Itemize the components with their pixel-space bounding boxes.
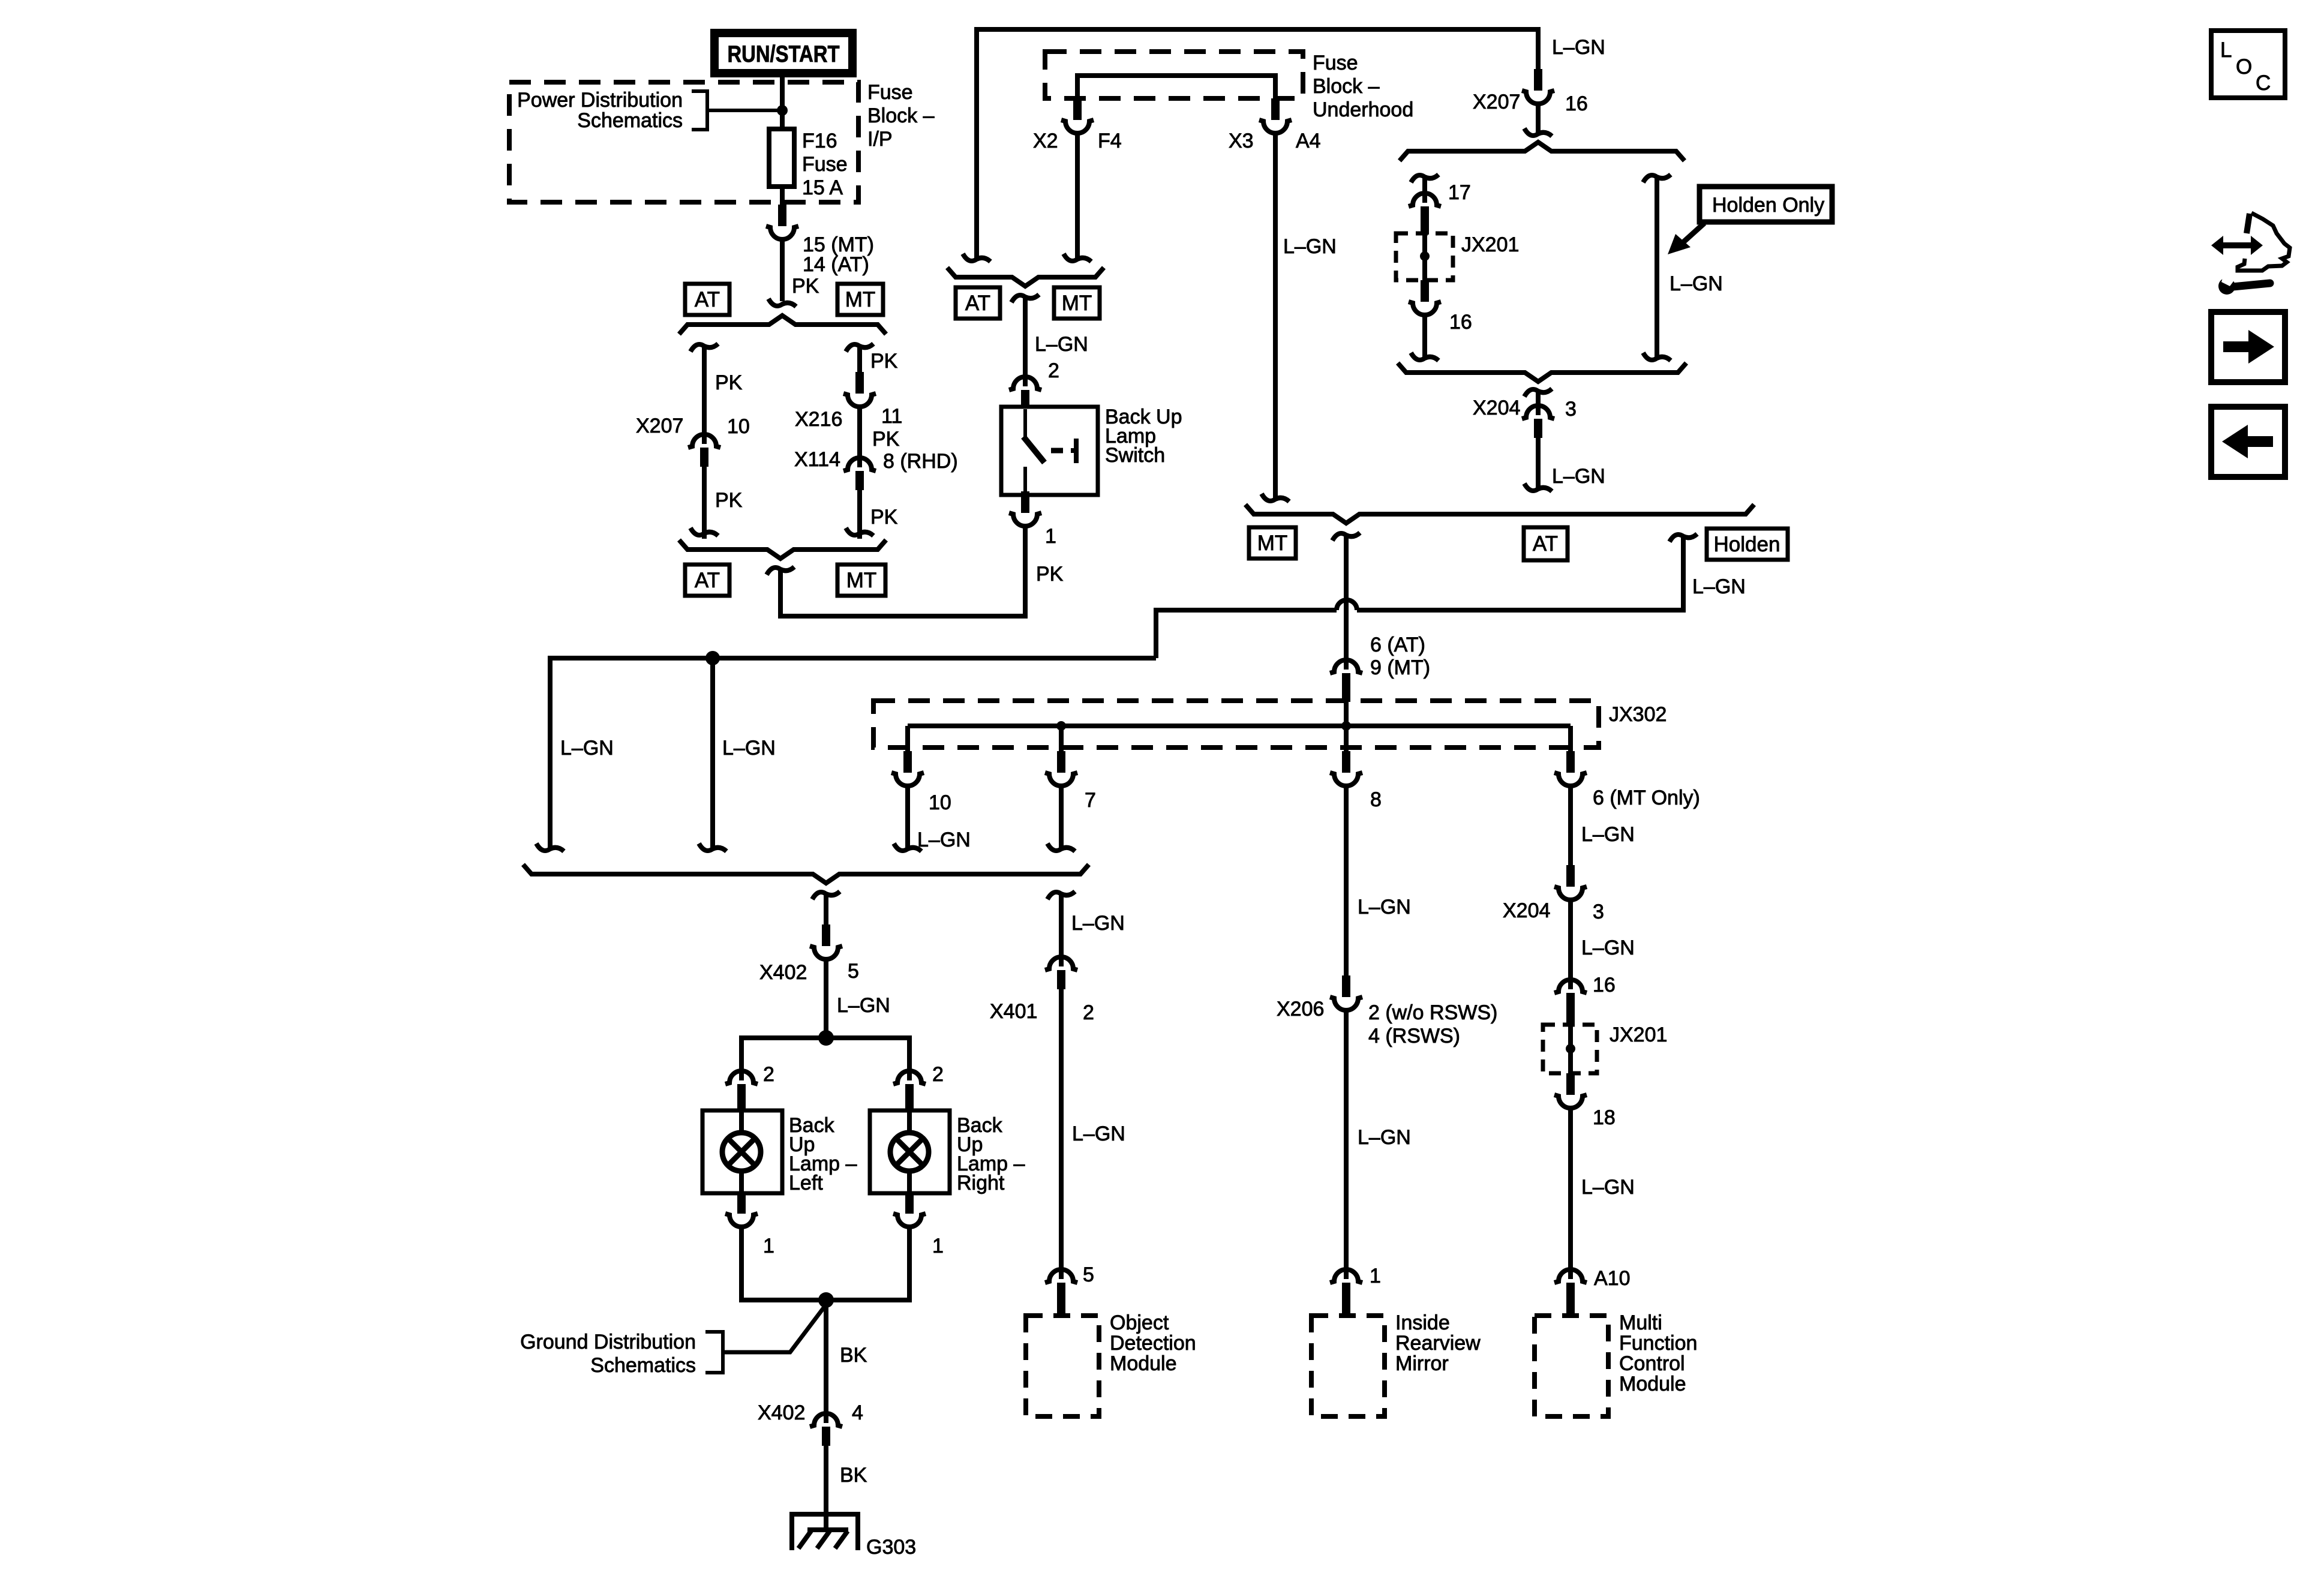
svg-text:X206: X206 [1277, 998, 1324, 1020]
bracket for Ground Distribution text [705, 1332, 723, 1373]
wire: right lamp to ground node [826, 1226, 909, 1300]
svg-text:PK: PK [870, 506, 898, 529]
wire L-GN: far left leg [548, 656, 553, 848]
wire: right lamp lead-in [907, 1112, 912, 1135]
switch internal: blade (open) [1023, 437, 1044, 463]
wire: JX302 pin7 drop [1059, 726, 1064, 752]
svg-text:Block –: Block – [867, 104, 935, 127]
svg-text:BK: BK [840, 1344, 867, 1367]
svg-text:11: 11 [881, 405, 902, 428]
connector: MFCM pin A10 [1554, 1269, 1587, 1317]
svg-text:JX302: JX302 [1609, 703, 1667, 726]
svg-text:L: L [2220, 38, 2232, 62]
connector: right lamp pin 2 [893, 1071, 926, 1112]
hook: PK wire end at split brace [768, 299, 796, 307]
svg-text:X401: X401 [990, 1000, 1037, 1023]
connector: left lamp pin 1 [725, 1192, 758, 1227]
svg-text:O: O [2236, 55, 2252, 79]
wire L-GN: to MFCM [1568, 1107, 1573, 1279]
svg-text:8 (RHD): 8 (RHD) [883, 450, 958, 473]
wire: ground distribution tap [723, 1303, 827, 1352]
wire: A4 drop inside box [1273, 73, 1278, 100]
svg-text:AT: AT [965, 292, 990, 315]
hook: lamp feed output [812, 891, 840, 899]
brace: AT/MT split [679, 316, 886, 334]
svg-text:L–GN: L–GN [1552, 36, 1605, 59]
wire L-GN: to switch pin 2 [1023, 295, 1028, 386]
svg-text:9 (MT): 9 (MT) [1370, 656, 1430, 679]
svg-text:PK: PK [792, 275, 819, 298]
svg-text:JX201: JX201 [1461, 233, 1519, 256]
connector JX201 pin 17 [1409, 193, 1441, 235]
svg-text:3: 3 [1593, 900, 1604, 923]
brace: Holden split [1400, 142, 1685, 161]
svg-text:Control: Control [1619, 1352, 1685, 1375]
svg-text:5: 5 [1083, 1263, 1094, 1286]
wire: left lamp lead-out [739, 1169, 744, 1193]
MT tag box (left merge) [837, 565, 885, 596]
lamp symbol left (circle with X) [722, 1133, 761, 1171]
svg-text:Schematics: Schematics [590, 1354, 696, 1377]
hook: A4 leg end [1262, 494, 1289, 502]
svg-text:L–GN: L–GN [1035, 333, 1088, 356]
svg-text:Multi: Multi [1619, 1311, 1662, 1334]
LOC reference box [2211, 31, 2285, 98]
connector JX201 pin 18 [1554, 1073, 1587, 1108]
wire L-GN: pin10 leg [905, 785, 910, 848]
svg-text:5: 5 [848, 960, 859, 983]
svg-text:F4: F4 [1098, 130, 1122, 152]
svg-text:Right: Right [957, 1172, 1005, 1194]
MT tag box (merge) [1249, 527, 1296, 559]
svg-text:16: 16 [1565, 92, 1588, 115]
hook: MT branch end [846, 528, 873, 536]
svg-text:Mirror: Mirror [1395, 1352, 1449, 1375]
wire: X207-16 to brace [1536, 103, 1541, 133]
svg-text:1: 1 [1045, 525, 1056, 548]
brace: back-up lamp feed merge [523, 864, 1089, 883]
svg-text:L–GN: L–GN [1283, 235, 1337, 258]
svg-text:2: 2 [1083, 1001, 1094, 1024]
hook: merged PK output [767, 567, 794, 575]
icon: back arrow box [2211, 407, 2285, 477]
connector JX201 pin 16 (lower) [1554, 980, 1587, 1026]
hook: 17 leg start [1411, 175, 1439, 182]
wire: lamp split bus [741, 1035, 909, 1040]
junction node on fuse feed [777, 105, 788, 116]
svg-text:8: 8 [1370, 788, 1382, 811]
connector: switch pin 2 [1009, 377, 1041, 408]
svg-text:PK: PK [1036, 563, 1064, 586]
connector JX302 pin 8 [1330, 751, 1362, 786]
svg-text:15 A: 15 A [802, 176, 843, 199]
connector X207 pin 10 [688, 434, 720, 467]
connector: right lamp pin 1 [893, 1192, 926, 1227]
icon: double-headed arrow [2221, 242, 2253, 248]
connector JX302 pin 7 [1045, 751, 1077, 786]
svg-text:10: 10 [727, 415, 750, 438]
svg-text:Holden Only: Holden Only [1712, 194, 1824, 217]
wire: underhood internal bus [1077, 73, 1275, 78]
svg-text:Schematics: Schematics [577, 109, 683, 132]
wire L-GN: Holden tap down and left [1357, 535, 1683, 610]
wire L-GN: pin6 mid [1568, 899, 1573, 989]
svg-text:Module: Module [1619, 1373, 1686, 1395]
svg-text:G303: G303 [866, 1536, 916, 1559]
brace: X2/F4 merge [947, 268, 1104, 286]
svg-text:X402: X402 [758, 1401, 805, 1424]
svg-text:6 (MT Only): 6 (MT Only) [1593, 786, 1700, 809]
junction node left bus [705, 651, 720, 665]
hook: Holden tap [1670, 534, 1697, 542]
wire PK MT branch mid [857, 406, 862, 467]
svg-text:MT: MT [1257, 532, 1288, 555]
wire: 17 leg upper [1422, 175, 1427, 203]
svg-text:2 (w/o RSWS): 2 (w/o RSWS) [1368, 1001, 1497, 1024]
svg-text:PK: PK [870, 350, 898, 373]
switch internal: lower pole [1023, 467, 1027, 493]
switch internal: pole from pin 2 [1023, 409, 1027, 439]
wire L-GN: hop to left drop [1156, 610, 1337, 658]
svg-text:Fuse: Fuse [1313, 52, 1358, 74]
JX302 junction block dashed box [873, 701, 1599, 748]
wire BK: to ground [824, 1446, 828, 1531]
connector X204 pin 3 (lower) [1554, 865, 1587, 900]
svg-text:7: 7 [1085, 789, 1096, 812]
arrow from Holden Only box [1680, 223, 1704, 245]
fuse F16 body [769, 129, 794, 187]
wire: to X204-3 [1536, 389, 1541, 415]
svg-text:X207: X207 [1473, 91, 1520, 113]
wire L-GN: brace to X401-2 [1059, 892, 1064, 966]
connector: ODM pin 5 [1045, 1269, 1077, 1317]
wire L-GN: second left leg [710, 658, 715, 848]
connector: switch pin 1 [1009, 491, 1041, 526]
connector: fuse block I/P output [766, 205, 798, 239]
svg-text:16: 16 [1593, 974, 1616, 996]
wire: JX201 internal [1422, 226, 1427, 281]
wire PK: connector to AT/MT split [780, 238, 785, 301]
wire: left lamp drop [739, 1035, 744, 1080]
svg-text:PK: PK [715, 489, 743, 512]
hook: far left leg end [536, 843, 564, 851]
svg-text:C: C [2256, 71, 2271, 95]
wire PK MT branch lower [857, 490, 862, 539]
wire: X2 leg down [974, 27, 979, 259]
wire: 16 leg lower [1422, 314, 1427, 358]
svg-text:L–GN: L–GN [1692, 575, 1746, 598]
Fuse Block - Underhood dashed box [1045, 52, 1303, 98]
svg-text:X114: X114 [794, 448, 840, 471]
lamp symbol right (circle with X) [890, 1133, 929, 1171]
svg-text:6 (AT): 6 (AT) [1370, 634, 1425, 656]
wire: JX302 pin6 drop [1568, 726, 1573, 752]
connector: mirror pin 1 [1330, 1269, 1362, 1317]
junction node lamp split [818, 1030, 834, 1046]
svg-text:L–GN: L–GN [1552, 465, 1605, 488]
hop: L-GN crosses merged output wire [1337, 600, 1357, 610]
hook: pin10 leg end [894, 843, 921, 851]
svg-text:1: 1 [932, 1235, 944, 1257]
junction dot JX302 right [1341, 721, 1351, 731]
svg-text:10: 10 [929, 791, 951, 814]
wire: JX201 lower internal [1568, 1012, 1573, 1074]
wire L-GN: Holden right leg [1655, 175, 1659, 358]
svg-text:L–GN: L–GN [837, 994, 890, 1017]
svg-text:4: 4 [852, 1401, 863, 1424]
hook: MT branch start [846, 344, 873, 352]
hook: pin7 leg end [1047, 843, 1075, 851]
hook: Holden right leg end [1643, 353, 1671, 361]
hook: AT branch start [690, 344, 718, 352]
wire L-GN: X402-5 to split node [824, 958, 828, 1033]
wire: JX302 pin8 drop [1344, 726, 1349, 752]
svg-text:Inside: Inside [1395, 1311, 1450, 1334]
svg-text:Rearview: Rearview [1395, 1332, 1481, 1355]
wire: JX302 pin10 drop [905, 726, 910, 752]
AT tag box (left merge) [685, 565, 729, 596]
svg-text:AT: AT [695, 569, 720, 592]
svg-text:PK: PK [715, 371, 743, 394]
JX201 junction dashed box (lower) [1543, 1025, 1597, 1073]
svg-text:2: 2 [1048, 359, 1059, 382]
svg-text:BK: BK [840, 1464, 867, 1487]
wire L-GN: A4 leg down [1273, 132, 1278, 499]
connector X2/F4 [1061, 98, 1094, 133]
hook: 16 leg end [1411, 353, 1439, 361]
RUN/START ignition feed box [714, 33, 852, 73]
junction dot JX201 [1420, 251, 1430, 261]
bracket from Power Distribution text to wire [692, 91, 707, 130]
connector X402 pin 5 [810, 924, 842, 959]
svg-text:14 (AT): 14 (AT) [803, 253, 869, 276]
svg-text:X204: X204 [1473, 397, 1520, 419]
Fuse Block - I/P dashed box [509, 82, 858, 202]
icon: vehicle hood outline [2247, 214, 2250, 233]
hook: X204 feed [1524, 389, 1552, 397]
wire L-GN: X401 to ODM [1059, 989, 1064, 1279]
connector X204 pin 3 (top) [1522, 406, 1554, 438]
svg-text:L–GN: L–GN [1581, 936, 1635, 959]
svg-text:Object: Object [1110, 1311, 1169, 1334]
svg-text:Module: Module [1110, 1352, 1177, 1375]
connector X401 pin 2 [1045, 957, 1077, 989]
svg-text:Power Distribution: Power Distribution [517, 89, 683, 112]
wire L-GN: pin6 upper [1568, 785, 1573, 866]
svg-text:X207: X207 [636, 415, 683, 437]
svg-text:MT: MT [1062, 292, 1092, 315]
svg-text:L–GN: L–GN [1071, 912, 1125, 935]
AT tag box (merge) [1524, 527, 1568, 560]
svg-text:X2: X2 [1033, 130, 1058, 152]
svg-text:L–GN: L–GN [1670, 272, 1723, 295]
svg-text:MT: MT [846, 569, 877, 592]
svg-text:X216: X216 [795, 408, 842, 431]
wire: merged output down [1344, 533, 1349, 670]
hook: X2 leg end [963, 254, 990, 262]
wire PK MT branch upper [857, 344, 862, 373]
svg-text:AT: AT [695, 288, 720, 311]
connector X402 pin 4 [810, 1413, 842, 1446]
svg-text:JX201: JX201 [1610, 1023, 1667, 1046]
connector X206 pin 2/4 [1330, 975, 1362, 1010]
Holden Only callout box [1700, 187, 1832, 222]
wire: left lamp lead-in [739, 1112, 744, 1135]
connector X3/A4 [1259, 98, 1292, 133]
MT tag box (switch) [1054, 287, 1100, 319]
wire: into JX302 [1344, 692, 1349, 726]
brace: MT/AT/Holden merge [1245, 505, 1754, 523]
svg-text:Ground Distribution: Ground Distribution [520, 1331, 696, 1353]
wire: F4 leg down [1075, 132, 1080, 259]
Object Detection Module dashed box [1026, 1316, 1099, 1416]
wire L-GN: X204 to big brace [1536, 438, 1541, 488]
brace: AT/MT merge [679, 540, 886, 559]
svg-text:Function: Function [1619, 1332, 1697, 1355]
icon: forward arrow box [2211, 312, 2285, 382]
svg-text:L–GN: L–GN [917, 828, 971, 851]
junction dot JX302 left [1056, 721, 1066, 731]
icon: wrench [2233, 283, 2270, 287]
brace: Holden merge [1398, 363, 1686, 382]
svg-text:2: 2 [932, 1063, 944, 1086]
Back Up Lamp - Right box [870, 1110, 950, 1193]
wire BK: ground node to X402-4 [824, 1300, 828, 1423]
connector JX201 pin 16 [1409, 280, 1441, 315]
svg-text:3: 3 [1565, 398, 1577, 421]
Holden tag box (merge) [1707, 529, 1788, 560]
wire L-GN: pin7 leg [1059, 785, 1064, 848]
hook: AT branch end [690, 528, 718, 536]
ground symbol G303 [792, 1514, 858, 1550]
svg-text:18: 18 [1593, 1106, 1616, 1129]
wire L-GN: left bus [550, 656, 1156, 661]
svg-text:1: 1 [763, 1235, 774, 1257]
hook: X401 leg start [1047, 891, 1075, 899]
hook: F4 leg end [1064, 254, 1091, 262]
wire L-GN: top bus right drop [1536, 27, 1541, 70]
wire: RUN/START to fuse F16 [780, 73, 785, 130]
svg-text:1: 1 [1370, 1265, 1381, 1287]
junction dot JX201 lower [1566, 1044, 1575, 1053]
svg-text:I/P: I/P [867, 128, 893, 151]
svg-text:Detection: Detection [1110, 1332, 1196, 1355]
hook: X207-16 end [1524, 128, 1552, 136]
wire PK AT branch lower [702, 467, 707, 539]
svg-text:Fuse: Fuse [802, 153, 848, 176]
junction node ground bus [818, 1292, 834, 1308]
wire: to X402-5 [824, 892, 828, 926]
svg-text:L–GN: L–GN [1358, 1126, 1411, 1149]
svg-text:Underhood: Underhood [1313, 98, 1413, 121]
svg-text:L–GN: L–GN [1358, 896, 1411, 918]
wire: right lamp lead-out [907, 1169, 912, 1193]
svg-text:AT: AT [1533, 532, 1558, 556]
svg-text:Block –: Block – [1313, 75, 1380, 98]
svg-text:L–GN: L–GN [1581, 1176, 1635, 1199]
svg-text:L–GN: L–GN [560, 737, 614, 760]
svg-text:X3: X3 [1229, 130, 1254, 152]
Multi Function Control Module dashed box [1535, 1316, 1608, 1416]
AT tag box (left split) [685, 284, 729, 315]
connector JX302 pin 10 [891, 751, 924, 786]
svg-text:16: 16 [1449, 311, 1472, 334]
wire: F4 drop inside box [1075, 73, 1080, 100]
svg-text:L–GN: L–GN [1072, 1122, 1125, 1145]
svg-text:A4: A4 [1296, 130, 1321, 152]
hook: X204 leg end [1524, 484, 1552, 491]
svg-text:Switch: Switch [1105, 444, 1165, 467]
connector: left lamp pin 2 [725, 1071, 758, 1112]
Inside Rearview Mirror dashed box [1311, 1316, 1385, 1416]
svg-text:Fuse: Fuse [867, 81, 913, 104]
svg-text:4 (RSWS): 4 (RSWS) [1368, 1025, 1460, 1047]
hook: second left leg end [699, 843, 726, 851]
svg-text:17: 17 [1448, 181, 1471, 204]
connector JX302 pin 6 (MT Only) [1554, 751, 1587, 786]
svg-text:Holden: Holden [1714, 533, 1780, 556]
Back Up Lamp - Left box [702, 1110, 782, 1193]
wire L-GN: pin8 leg [1344, 785, 1349, 977]
wire L-GN: X206 to mirror [1344, 1009, 1349, 1279]
Back Up Lamp Switch box [1001, 407, 1098, 495]
svg-text:RUN/START: RUN/START [728, 41, 840, 67]
wire PK AT branch upper [702, 344, 707, 444]
hook: merged output [1332, 533, 1360, 541]
AT tag box (switch) [956, 287, 1000, 319]
svg-text:2: 2 [763, 1063, 774, 1086]
svg-text:MT: MT [845, 288, 876, 311]
svg-text:PK: PK [872, 428, 900, 451]
wire: fuse F16 to connector [780, 187, 785, 206]
wire: bracket to fuse node [707, 109, 782, 112]
wire: top bus [977, 27, 1538, 32]
svg-text:Left: Left [789, 1172, 823, 1194]
switch internal: dash link [1051, 448, 1063, 454]
svg-text:A10: A10 [1594, 1267, 1631, 1290]
switch internal: fixed contact [1071, 439, 1076, 463]
connector X207 pin 16 [1522, 69, 1554, 104]
connector X114 pin 8 [843, 458, 876, 490]
svg-text:L–GN: L–GN [722, 737, 776, 760]
svg-text:X204: X204 [1503, 899, 1550, 922]
hook: switch feed output [1011, 295, 1039, 302]
connector JX302 pin 6(AT)/9(MT) [1330, 660, 1362, 702]
svg-text:F16: F16 [802, 130, 837, 152]
wire PK: merge to switch pin 1 [780, 526, 1025, 616]
wire: right lamp drop [907, 1035, 912, 1080]
wire: JX302 internal bus [908, 724, 1571, 728]
svg-text:L–GN: L–GN [1581, 823, 1635, 846]
wire: left lamp to ground bus [741, 1226, 826, 1300]
MT tag box (left split) [837, 284, 883, 315]
JX201 junction dashed box (Holden) [1396, 233, 1453, 280]
connector X216 pin 11 [843, 372, 876, 407]
svg-text:X402: X402 [759, 961, 807, 984]
hook: Holden right leg start [1643, 175, 1671, 182]
